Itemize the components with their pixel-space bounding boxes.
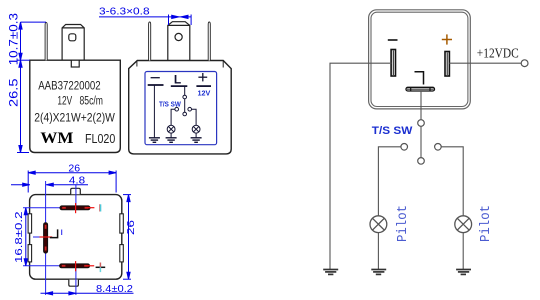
wire left throw to left lamp: [378, 147, 401, 216]
ground (left lamp): [371, 270, 386, 275]
svg-text:12V: 12V: [198, 88, 211, 97]
svg-text:26.5: 26.5: [7, 78, 21, 107]
lamp Pilot left: [370, 216, 387, 233]
wire right throw to right lamp: [441, 147, 463, 216]
dimension 26.5: [17, 60, 30, 152]
label - (rotated, bottom view): [100, 204, 101, 211]
switch arm wire: [184, 99, 186, 112]
switch arm wire (schematic): [420, 126, 422, 157]
svg-text:WM: WM: [40, 130, 73, 147]
terminal blade +: [445, 52, 449, 77]
svg-text:85c/m: 85c/m: [80, 95, 104, 107]
ground (far left): [323, 270, 338, 275]
wire L pin down: [420, 91, 422, 120]
ground (right lamp): [456, 270, 471, 275]
right throw contact: [188, 107, 192, 111]
svg-text:Pilot: Pilot: [478, 205, 494, 242]
ground (inside box, right): [191, 138, 202, 143]
left throw contact (schematic): [401, 144, 408, 151]
internal schematic box (blue): [145, 72, 217, 145]
svg-text:12V: 12V: [57, 95, 72, 107]
top mounting tab: [71, 188, 81, 194]
label + (schematic, orange): [442, 34, 452, 44]
center line vertical (+/- blades), lower segment: [75, 268, 77, 295]
wire left throw to lamp: [171, 109, 175, 125]
blade hole (view 2): [175, 33, 182, 40]
relay body outline (bottom view): [30, 195, 122, 280]
svg-text:Pilot: Pilot: [395, 205, 411, 242]
terminal blade -: [391, 50, 395, 77]
L pin mark: [415, 72, 424, 85]
left side rib upper: [28, 214, 32, 233]
right side rib lower: [120, 245, 124, 262]
left side rib lower: [28, 245, 32, 262]
center line horizontal (+ blade): [23, 265, 60, 267]
pin L (thin blade edge-on, view 1): [45, 22, 47, 60]
L blade slot (bottom view, left): [40, 223, 53, 253]
dimension 10.7±0.3: [19, 22, 46, 60]
wire minus to ground: [153, 85, 155, 138]
bottom mounting tab: [69, 280, 79, 287]
svg-text:L: L: [174, 72, 181, 86]
plus terminal bar: [196, 85, 211, 87]
minus sign label: [151, 77, 160, 79]
ground (inside box, middle): [166, 138, 177, 143]
+12VDC terminal circle: [521, 60, 528, 67]
pin +/- (wide blade, view 1): [62, 25, 84, 61]
right side rib upper: [120, 214, 124, 233]
ground (inside box, left): [149, 138, 160, 143]
wire - terminal to left: [330, 63, 391, 269]
svg-text:AAB37220002: AAB37220002: [38, 80, 100, 92]
switch common contact (schematic): [418, 120, 425, 127]
+ blade slot (bottom view, bottom): [60, 261, 95, 271]
relay box outer: [369, 10, 471, 109]
lamp Pilot right: [455, 216, 472, 233]
center line vertical (+/- blades), upper segment: [75, 185, 77, 207]
svg-text:10.7±0.3: 10.7±0.3: [7, 13, 21, 66]
label L (mirrored, bottom view): [50, 229, 58, 237]
center line horizontal (L blade): [33, 236, 41, 238]
relay body outline (side view): [129, 61, 232, 154]
relay box inner: [371, 12, 468, 106]
minus terminal bar: [148, 84, 164, 86]
center line horizontal (- blade): [23, 207, 60, 209]
switch lower contact (schematic): [418, 158, 425, 165]
lamp (inside box, left): [167, 125, 175, 138]
pin L (wide blade, side view): [168, 22, 190, 61]
L terminal bar: [171, 85, 188, 87]
svg-text:FL020: FL020: [85, 132, 115, 146]
switch common contact: [183, 95, 187, 99]
wire + terminal to +12VDC: [449, 62, 521, 64]
label - (schematic): [388, 39, 398, 41]
right throw contact (schematic): [435, 144, 442, 151]
plus sign label: [198, 73, 207, 81]
svg-text:+12VDC: +12VDC: [477, 47, 519, 62]
svg-text:T/S SW: T/S SW: [159, 99, 182, 108]
switch lower contact: [183, 112, 187, 116]
lamp (inside box, right): [192, 125, 200, 138]
pin + (thin, side view): [208, 22, 210, 61]
pin - (thin, side view): [149, 22, 151, 61]
left throw contact: [175, 107, 179, 111]
label + (bottom view): [96, 263, 106, 273]
wire right throw to lamp: [192, 109, 197, 125]
svg-text:3-6.3×0.8: 3-6.3×0.8: [99, 6, 150, 18]
wire L to switch: [184, 86, 186, 95]
svg-text:T/S SW: T/S SW: [372, 125, 413, 137]
svg-text:26: 26: [125, 220, 137, 235]
svg-text:2(4)X21W+2(2)W: 2(4)X21W+2(2)W: [34, 112, 115, 124]
center line vertical (L blade): [45, 181, 47, 295]
svg-text:16.8±0.2: 16.8±0.2: [14, 211, 25, 263]
terminal blade L (horizontal): [406, 87, 435, 91]
relay body outline (front view): [30, 60, 121, 152]
wire right lamp to ground: [462, 233, 464, 270]
blade hole (view 1): [69, 34, 76, 41]
blade slot notch on body top: [71, 60, 79, 67]
- blade slot (bottom view, top): [60, 203, 94, 213]
wire left lamp to ground: [377, 233, 379, 270]
